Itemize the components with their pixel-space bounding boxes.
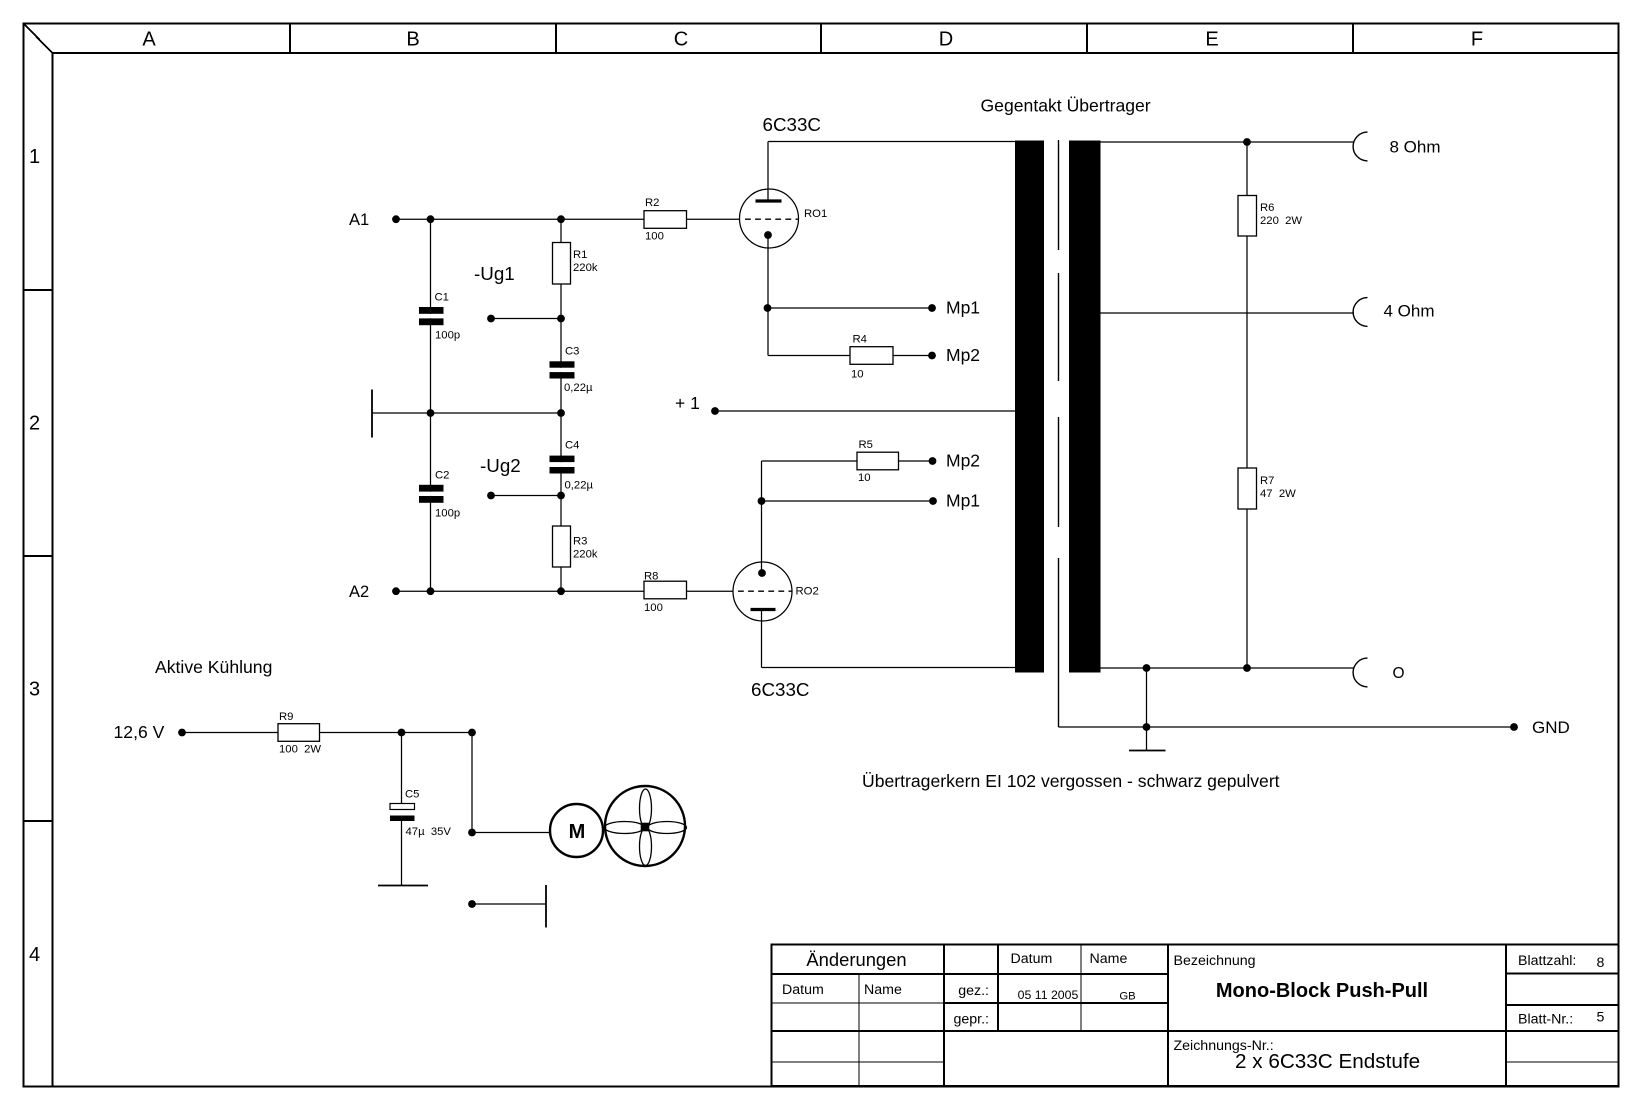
svg-text:220 2W: 220 2W	[1260, 215, 1302, 227]
svg-text:Datum: Datum	[782, 982, 824, 998]
svg-text:C2: C2	[435, 470, 449, 482]
svg-text:-Ug1: -Ug1	[474, 263, 515, 284]
svg-text:gez.:: gez.:	[958, 983, 989, 999]
svg-text:100 2W: 100 2W	[279, 744, 321, 756]
svg-text:+ 1: + 1	[675, 393, 700, 413]
svg-text:3: 3	[29, 679, 40, 701]
svg-text:A: A	[142, 29, 156, 51]
svg-text:C4: C4	[565, 440, 579, 452]
svg-text:E: E	[1205, 29, 1218, 51]
svg-text:Blattzahl:: Blattzahl:	[1518, 953, 1576, 969]
svg-text:C3: C3	[565, 346, 579, 358]
svg-text:Datum: Datum	[1011, 951, 1053, 967]
svg-text:M: M	[569, 821, 586, 843]
svg-text:Gegentakt Übertrager: Gegentakt Übertrager	[981, 96, 1151, 116]
svg-text:B: B	[406, 29, 419, 51]
svg-text:12,6 V: 12,6 V	[114, 722, 165, 742]
svg-text:220k: 220k	[573, 262, 598, 274]
svg-text:R6: R6	[1260, 202, 1274, 214]
svg-text:R4: R4	[853, 334, 867, 346]
svg-text:100p: 100p	[435, 508, 460, 520]
svg-text:6C33C: 6C33C	[763, 114, 821, 135]
svg-text:2: 2	[29, 413, 40, 435]
svg-text:Name: Name	[864, 982, 902, 998]
svg-text:C: C	[674, 29, 688, 51]
svg-text:100: 100	[644, 602, 663, 614]
svg-text:C5: C5	[405, 789, 419, 801]
svg-text:R1: R1	[573, 249, 587, 261]
svg-text:A1: A1	[349, 211, 369, 229]
svg-text:0,22µ: 0,22µ	[565, 480, 594, 492]
svg-text:1: 1	[29, 146, 40, 168]
svg-text:47 2W: 47 2W	[1260, 488, 1296, 500]
svg-text:4 Ohm: 4 Ohm	[1384, 302, 1435, 321]
svg-text:47µ 35V: 47µ 35V	[406, 826, 452, 838]
svg-text:2 x 6C33C Endstufe: 2 x 6C33C Endstufe	[1235, 1050, 1420, 1073]
svg-text:Mp1: Mp1	[946, 491, 980, 511]
svg-text:GB: GB	[1119, 991, 1135, 1003]
svg-text:Mono-Block Push-Pull: Mono-Block Push-Pull	[1216, 980, 1428, 1002]
svg-text:-Ug2: -Ug2	[480, 455, 521, 476]
svg-text:RO1: RO1	[804, 208, 827, 220]
svg-text:10: 10	[858, 472, 871, 484]
svg-text:100: 100	[645, 231, 664, 243]
svg-text:5: 5	[1597, 1010, 1605, 1026]
svg-text:Aktive Kühlung: Aktive Kühlung	[155, 657, 272, 677]
svg-text:GND: GND	[1532, 718, 1570, 737]
svg-text:Übertragerkern EI 102 vergosse: Übertragerkern EI 102 vergossen - schwar…	[862, 771, 1280, 791]
svg-text:R3: R3	[573, 536, 587, 548]
svg-text:Mp2: Mp2	[946, 345, 980, 365]
svg-text:Änderungen: Änderungen	[806, 949, 906, 970]
svg-text:Mp1: Mp1	[946, 298, 980, 318]
svg-text:F: F	[1471, 29, 1483, 51]
svg-text:O: O	[1393, 665, 1405, 682]
svg-text:R9: R9	[279, 711, 293, 723]
svg-text:Blatt-Nr.:: Blatt-Nr.:	[1518, 1012, 1573, 1028]
svg-text:0,22µ: 0,22µ	[564, 382, 593, 394]
svg-text:R8: R8	[644, 571, 658, 583]
svg-text:Name: Name	[1090, 951, 1128, 967]
svg-text:D: D	[939, 29, 953, 51]
svg-text:4: 4	[29, 944, 40, 966]
svg-text:100p: 100p	[435, 330, 460, 342]
svg-text:Bezeichnung: Bezeichnung	[1174, 953, 1256, 969]
svg-text:A2: A2	[349, 583, 369, 601]
svg-text:RO2: RO2	[796, 586, 819, 598]
svg-text:8 Ohm: 8 Ohm	[1390, 138, 1441, 157]
svg-text:C1: C1	[435, 292, 449, 304]
svg-text:Mp2: Mp2	[946, 451, 980, 471]
svg-text:R5: R5	[859, 439, 873, 451]
svg-text:220k: 220k	[573, 549, 598, 561]
svg-text:R7: R7	[1260, 475, 1274, 487]
svg-text:05 11 2005: 05 11 2005	[1018, 988, 1079, 1002]
svg-text:8: 8	[1597, 955, 1605, 971]
svg-text:6C33C: 6C33C	[751, 679, 809, 700]
svg-text:gepr.:: gepr.:	[954, 1012, 990, 1028]
svg-text:R2: R2	[645, 197, 659, 209]
svg-text:10: 10	[851, 369, 864, 381]
